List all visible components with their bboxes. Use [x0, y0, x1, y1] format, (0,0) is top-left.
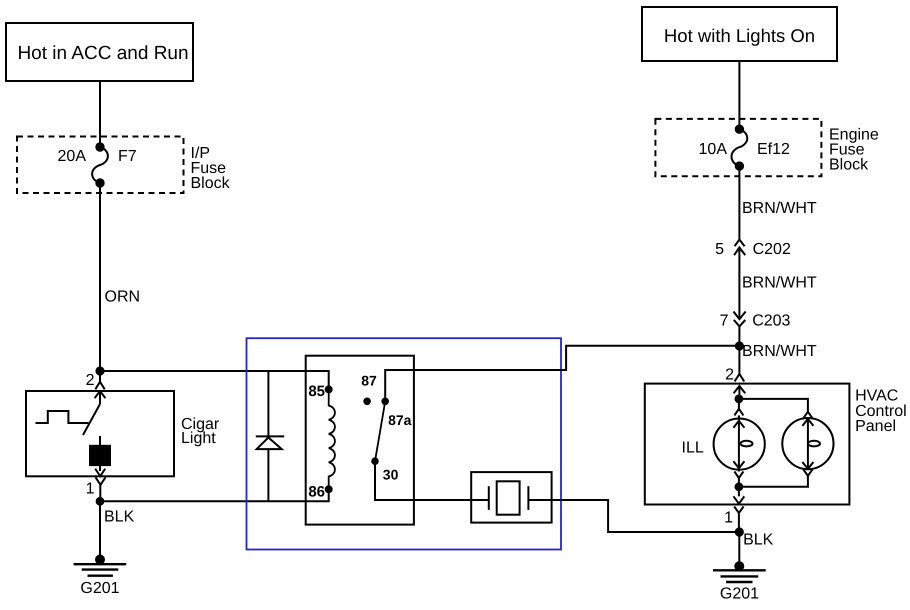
node: junction BLK at HVAC ground — [736, 528, 743, 535]
wire to relay coil (pin 85 side) — [100, 371, 329, 389]
svg-text:BRN/WHT: BRN/WHT — [742, 200, 817, 217]
wire — [99, 81, 101, 147]
svg-text:Hot in ACC and Run: Hot in ACC and Run — [17, 43, 188, 64]
wire from right bulb — [739, 476, 808, 487]
relay common pivot + wire to HVAC — [385, 346, 739, 402]
node: bottom junction in HVAC — [736, 483, 743, 490]
node: junction at cigar lighter pin 2 — [96, 367, 103, 374]
wire BRN/WHT — [738, 166, 740, 239]
power feed box "Hot in ACC and Run" — [6, 23, 193, 81]
svg-text:C203: C203 — [752, 312, 790, 329]
relay contact 87 — [364, 399, 370, 405]
relay box — [306, 356, 414, 525]
diode D1 — [256, 371, 284, 501]
svg-text:BRN/WHT: BRN/WHT — [742, 343, 817, 360]
relay contact 30 — [372, 458, 378, 464]
svg-text:BLK: BLK — [104, 509, 135, 526]
svg-text:ILL: ILL — [682, 440, 704, 457]
svg-text:G201: G201 — [720, 586, 759, 603]
svg-text:2: 2 — [86, 372, 95, 389]
fuse F7 20A — [58, 143, 137, 186]
ground G201 (left) — [74, 556, 127, 598]
label I/P Fuse Block — [191, 145, 231, 192]
node: junction at cigar light ground wire — [97, 498, 104, 505]
svg-text:1: 1 — [86, 481, 95, 498]
connector C203 pin 7 — [720, 312, 791, 330]
noise suppressor capacitor — [471, 472, 551, 522]
svg-text:86: 86 — [308, 484, 325, 501]
svg-text:C202: C202 — [753, 241, 791, 258]
cigar light thermal element (pulse) — [36, 411, 89, 423]
svg-text:Block: Block — [191, 175, 231, 192]
svg-text:87: 87 — [361, 373, 377, 389]
cigar light box — [26, 391, 174, 476]
svg-text:10A: 10A — [699, 141, 728, 158]
svg-text:Hot with Lights On: Hot with Lights On — [664, 25, 815, 46]
svg-text:7: 7 — [720, 312, 729, 329]
svg-text:G201: G201 — [80, 580, 119, 597]
power feed box "Hot with Lights On" — [642, 7, 837, 61]
svg-text:Light: Light — [181, 430, 216, 447]
relay coil — [329, 389, 335, 489]
pin 1 connector of cigar light — [86, 465, 106, 501]
svg-text:BLK: BLK — [743, 532, 774, 549]
wire BLK to ground — [99, 501, 101, 559]
svg-text:ORN: ORN — [105, 289, 141, 306]
wire from contact 30 to capacitor — [375, 461, 489, 500]
wire BRN/WHT — [738, 248, 740, 320]
cigar light switch blade — [83, 391, 100, 435]
svg-text:20A: 20A — [58, 148, 87, 165]
wire — [738, 61, 740, 129]
svg-text:1: 1 — [724, 509, 733, 526]
wire ORN — [99, 183, 101, 371]
wire to relay coil pin 86 — [100, 489, 329, 501]
svg-text:30: 30 — [383, 467, 399, 483]
I/P fuse block (dashed) — [17, 137, 184, 194]
svg-text:2: 2 — [725, 367, 734, 384]
svg-text:85: 85 — [308, 383, 325, 400]
cigar light heating element — [90, 436, 110, 465]
svg-text:F7: F7 — [118, 148, 137, 165]
wire to right bulb — [739, 399, 808, 412]
svg-text:Block: Block — [829, 156, 869, 173]
node: top junction in HVAC — [736, 396, 743, 403]
node: junction BRN/WHT — [736, 342, 743, 349]
left illumination bulb ILL — [714, 399, 765, 487]
relay coil pin 85 — [326, 386, 332, 392]
connector C202 pin 5 — [715, 240, 791, 258]
label Engine Fuse Block — [829, 126, 879, 173]
svg-text:BRN/WHT: BRN/WHT — [742, 275, 817, 292]
ground G201 (right) — [713, 562, 766, 602]
relay coil pin 86 — [326, 486, 332, 492]
relay switch blade — [375, 401, 385, 461]
right illumination bulb — [782, 412, 833, 476]
HVAC control panel box — [645, 384, 850, 505]
wire to ground — [738, 532, 740, 566]
Engine fuse block (dashed) — [655, 119, 821, 176]
relay module boundary (blue) — [247, 338, 562, 549]
pin 1 connector of HVAC — [724, 487, 744, 532]
pin 2 connector of HVAC — [725, 367, 745, 399]
svg-text:87a: 87a — [388, 412, 412, 428]
pin 2 connector of cigar light — [86, 371, 106, 398]
wire to HVAC — [738, 326, 740, 373]
wire capacitor to HVAC ground junction — [528, 500, 739, 532]
fuse Ef12 10A — [699, 126, 790, 170]
svg-text:5: 5 — [715, 241, 724, 258]
svg-text:Panel: Panel — [855, 418, 896, 435]
svg-text:Ef12: Ef12 — [757, 141, 790, 158]
